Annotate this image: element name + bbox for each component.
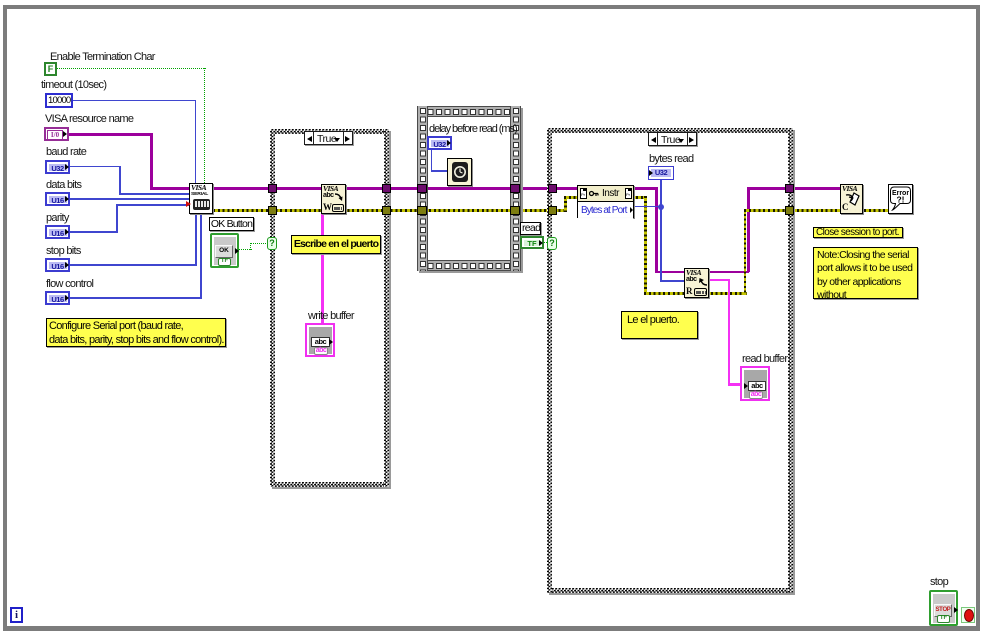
note Configure Serial port (46, 318, 226, 347)
control U16 parity (45, 225, 70, 239)
tunnel purple case1 right (382, 184, 391, 193)
OK Button boolean terminal (210, 233, 239, 268)
label read buffer (742, 353, 787, 365)
tunnel purple case2 right (785, 184, 794, 193)
wire enable termination char green (56, 68, 206, 69)
tunnel error case1 right (382, 206, 391, 215)
wire write buffer magenta (321, 213, 323, 324)
label OK Button (209, 217, 254, 231)
tunnel error case2 right (785, 206, 794, 215)
case 1 selector True (304, 131, 353, 145)
wire read buffer magenta (706, 279, 730, 281)
wire error jog up (564, 196, 567, 212)
control I/O VISA resource name (44, 127, 69, 141)
label VISA resource name (45, 113, 133, 125)
label Enable Termination Char (50, 51, 155, 63)
tunnel purple case2 left (548, 184, 557, 193)
wire read TF green (543, 242, 549, 243)
wire purple vertical down (150, 133, 152, 189)
label data bits (46, 179, 81, 191)
constant F (enable termination char) (44, 62, 57, 76)
control stop button (929, 590, 958, 626)
VISA Close VI (840, 184, 863, 214)
tunnel error case2 left (548, 206, 557, 215)
label stop bits (46, 245, 81, 257)
wire purple down to VISA Read (655, 187, 657, 273)
constant 10000 (45, 93, 73, 108)
note Close session to port (813, 227, 903, 238)
wire flow control (68, 297, 202, 299)
wire error to VISA Close and error dialog (744, 209, 890, 212)
wire baud rate (68, 166, 121, 168)
control write buffer (string) (305, 323, 335, 357)
wire error up (744, 209, 747, 295)
wire blue down to VISA Read (660, 206, 662, 282)
control U32 delay (427, 136, 452, 150)
tunnel error seq right (510, 206, 520, 215)
VISA Read VI (684, 268, 709, 298)
info icon i (10, 607, 23, 623)
note Le el puerto (621, 311, 698, 339)
coercion dot red (186, 201, 191, 207)
label delay before read (ms) (429, 123, 517, 135)
junction dot (658, 204, 664, 210)
flat sequence structure (film border) (417, 106, 521, 271)
wire error into VISA Read (644, 292, 685, 295)
indicator U32 bytes read (648, 166, 674, 180)
wire purple VISA Read out (706, 271, 749, 273)
wire purple into VISA Read (655, 271, 685, 273)
wire stop bits (68, 264, 197, 266)
control U16 stop bits (45, 258, 70, 272)
indicator read buffer (string) (740, 366, 770, 401)
tunnel error seq left (417, 206, 427, 215)
wire VISA resource purple: I/O out (68, 133, 152, 135)
tunnel purple seq left (417, 184, 427, 193)
wire parity (68, 231, 118, 233)
label timeout (10sec) (41, 79, 106, 91)
wire blue up to bytes read (660, 179, 662, 207)
control U32 baud rate (45, 160, 70, 174)
control U16 flow control (45, 291, 70, 305)
VISA Write VI (321, 184, 346, 214)
tunnel purple case1 left (268, 184, 277, 193)
wire purple to VISA Close (747, 187, 842, 189)
wire bytes at port out (633, 206, 662, 208)
case 2 selector True (648, 132, 697, 146)
wire error behind property node (564, 196, 645, 199)
error dialog (Simple Error Handler) (888, 184, 913, 214)
label read (520, 222, 541, 235)
Wait (ms) function (447, 158, 472, 186)
wire delay U32 to wait (431, 149, 433, 172)
note Escribe en el puerto (291, 235, 381, 254)
abort button red (961, 607, 975, 623)
wire purple up from VISA Read (747, 187, 749, 272)
case structure 2 (read) (547, 128, 793, 133)
case2 selector tunnel ? (547, 237, 557, 250)
VISA Configure Serial Port VI (189, 183, 213, 214)
note Note:Closing the serial (813, 247, 918, 299)
case structure 1 (write) (270, 129, 389, 134)
wire OK button green (239, 249, 252, 250)
label write buffer (308, 310, 354, 322)
wire purple main trunk (213, 187, 657, 189)
property node Bytes at Port (577, 185, 634, 218)
wire timeout blue (71, 100, 196, 102)
wire error out of VISA SERIAL (213, 209, 567, 212)
case1 selector tunnel ? (267, 237, 277, 250)
tunnel purple seq right (510, 184, 520, 193)
control U16 data bits (45, 192, 70, 206)
label bytes read (649, 153, 693, 165)
constant read TF (520, 236, 544, 249)
label flow control (46, 278, 93, 290)
label parity (46, 212, 69, 224)
tunnel error case1 left (268, 206, 277, 215)
wire error down to VISA Read (644, 196, 647, 295)
wire error VISA Read out (706, 292, 747, 295)
wire purple into VISA SERIAL (150, 187, 190, 189)
label baud rate (46, 146, 86, 158)
label stop (930, 576, 948, 588)
wire data bits (68, 198, 189, 200)
